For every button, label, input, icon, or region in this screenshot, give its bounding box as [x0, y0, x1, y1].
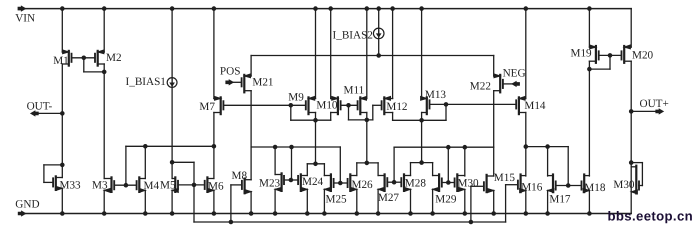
junction M25/M26 gate node: [339, 181, 343, 185]
junction I_BIAS2 on tail bus: [377, 54, 381, 58]
wire gate bus segment 2: [251, 146, 340, 148]
wire M26 source to GND: [356, 189, 358, 213]
transistor M21: [242, 74, 252, 92]
wire bias rail (lower bus): [194, 221, 506, 223]
junction OUT- node: [61, 112, 65, 116]
wire M19-M20 gate tie: [599, 54, 621, 56]
wire first gate bus drop to M3/M4 gates: [125, 146, 127, 185]
transistor M30 (output diode): [631, 166, 639, 194]
wire M15 gate down to bias rail: [470, 186, 472, 222]
wire M2 source to VIN rail: [103, 9, 105, 52]
wire I_BIAS1 node branch to M5/M6 gates: [172, 161, 194, 163]
wire M4 drain to first gate bus: [144, 146, 146, 178]
svg-text:M18: M18: [584, 182, 606, 194]
wire M22 drain to M15 drain: [493, 91, 495, 176]
wire M11 drain to M26/M27 drains: [366, 113, 368, 163]
svg-text:M4: M4: [144, 180, 160, 192]
transistor M6: [205, 177, 214, 192]
transistor M14: [516, 96, 526, 114]
port POS (arrow): [226, 80, 233, 85]
wire M17 source to GND: [547, 191, 549, 214]
junction M30 drain on bus: [463, 145, 467, 149]
wire M7 source to VIN rail: [213, 9, 215, 99]
junction M27/M28 gate node: [392, 180, 396, 184]
transistor M19: [589, 45, 598, 63]
svg-text:M27: M27: [378, 192, 400, 204]
wire M30 source to GND: [464, 191, 466, 214]
svg-text:M7: M7: [199, 101, 215, 113]
svg-text:M13: M13: [425, 89, 447, 101]
junction gate bus at M7 line: [212, 145, 216, 149]
wire M23 drain to gate bus: [274, 147, 276, 175]
svg-text:M10: M10: [316, 99, 338, 111]
wire M9 source to VIN rail: [315, 9, 317, 99]
wire M29 drain leg: [432, 163, 434, 176]
svg-text:M6: M6: [208, 181, 224, 193]
wire M10 source to VIN rail: [330, 9, 332, 99]
wire M19 source to VIN rail: [588, 9, 590, 48]
wire M1-M2 gate tie: [72, 57, 96, 59]
svg-text:M30: M30: [458, 177, 480, 189]
transistor M18: [582, 175, 590, 193]
wire M13 gate drop: [445, 104, 447, 120]
port NEG (arrow): [512, 82, 519, 87]
junction M10/M11 gate node: [347, 104, 351, 108]
svg-text:M15: M15: [494, 172, 516, 184]
wire M13-M14 gate tie: [430, 103, 517, 105]
wire M29-M30 gate tie: [442, 182, 455, 184]
wire M30 diode loop bottom: [639, 185, 643, 187]
wire M8 gate lead: [231, 184, 242, 186]
wire M16 gate down to bias rail: [505, 185, 507, 222]
junction M19 drain diode: [588, 67, 592, 71]
wire M23 source to GND: [274, 189, 276, 213]
transistor M26: [348, 174, 357, 191]
svg-text:M21: M21: [252, 77, 273, 89]
wire M9 gate to node: [290, 105, 292, 120]
wire M5 source to GND: [171, 190, 173, 213]
junction M3/M4 gate node: [124, 183, 128, 187]
junction M23/M24 gate node: [289, 178, 293, 182]
svg-text:M1: M1: [53, 55, 69, 67]
svg-text:M11: M11: [344, 85, 365, 97]
svg-text:bbs.eetop.cn: bbs.eetop.cn: [608, 209, 692, 224]
junction M23 drain on gate bus: [273, 145, 277, 149]
svg-text:M8: M8: [232, 170, 248, 182]
junction M7/M9 gate node: [289, 104, 293, 108]
svg-text:M22: M22: [470, 81, 491, 93]
svg-text:M14: M14: [524, 100, 546, 112]
transistor M3: [104, 177, 114, 192]
junction M11 drain node: [365, 118, 369, 122]
junction M8 gate on bias rail: [229, 220, 233, 224]
wire M26/M27 drain bridge: [357, 162, 378, 164]
wire VIN top rail: [25, 8, 631, 10]
wire M25-M26 gate tie: [334, 182, 348, 184]
transistor M23: [275, 173, 284, 191]
svg-text:M30: M30: [613, 179, 635, 191]
wire M2 drain to M3 drain: [103, 64, 105, 179]
wire gate bus drop to M29/M30 gates: [447, 147, 449, 182]
transistor M1: [62, 50, 71, 66]
junction M9/M10 drain node: [314, 118, 318, 122]
wire M5/M6 gate node down to bias rail: [193, 162, 195, 222]
wire M2 diode connection: [84, 71, 104, 73]
wire M30 drain to gate bus: [464, 147, 466, 176]
wire M19/M20 gate diode leg: [609, 55, 611, 69]
wire M1/M2 gate diode leg: [83, 58, 85, 72]
junction M1/M2 gates: [82, 56, 86, 60]
svg-text:M3: M3: [92, 179, 108, 191]
wire M3-M4 gate tie: [114, 184, 136, 186]
wire M8 source to GND: [250, 192, 252, 214]
wire M5-M6 gate tie: [178, 184, 205, 186]
wire gate bus segment 3: [394, 146, 494, 148]
svg-text:M12: M12: [386, 101, 407, 113]
svg-text:M28: M28: [405, 177, 427, 189]
wire M24 source to GND: [306, 189, 308, 213]
wire gate-bus drop to M23/M24 gates: [291, 147, 293, 180]
transistor M33: [53, 176, 62, 190]
svg-text:M2: M2: [106, 52, 122, 64]
svg-text:M9: M9: [288, 92, 304, 104]
wire first-stage gate bus segment 1: [126, 145, 214, 147]
junction M29/M30 gate drop on bus: [447, 145, 451, 149]
wire M28 drain leg: [410, 163, 412, 176]
wire M14 source to VIN rail: [525, 9, 527, 99]
transistor M8: [242, 179, 251, 194]
svg-text:M33: M33: [60, 180, 82, 192]
transistor M9: [306, 96, 316, 114]
junction M14 line on bus: [524, 145, 528, 149]
wire M7 drain to M6 drain: [213, 113, 215, 179]
wire M23-M24 gate tie: [284, 179, 298, 181]
junction dots on GND rail: [61, 212, 592, 216]
wire M13 drain to M28/M29 drains: [421, 113, 423, 163]
junction M12/M13 drain node: [420, 119, 424, 123]
wire I_BIAS2 from VIN rail to tail bus: [378, 9, 380, 56]
transistor M24: [298, 174, 307, 191]
wire M15 source to GND: [493, 191, 495, 214]
svg-text:M24: M24: [302, 176, 324, 188]
wire M4 source to GND: [144, 190, 146, 213]
wire M28 source to GND: [410, 189, 412, 213]
svg-text:I_BIAS1: I_BIAS1: [126, 76, 166, 88]
wire M21 drain to M8 drain: [250, 91, 252, 180]
junction M17 drain on bus: [546, 145, 550, 149]
wire M12 source to VIN rail: [392, 9, 394, 99]
transistor M28: [401, 174, 410, 191]
wire M1 source to VIN rail: [61, 9, 63, 52]
junction M24/M25 bridge feed: [314, 162, 318, 166]
wire M27-M28 gate tie: [387, 181, 401, 183]
wire M24/M25 drain bridge: [307, 163, 324, 165]
svg-text:M17: M17: [549, 194, 571, 206]
wire M18 source to GND: [588, 191, 590, 214]
wire POS to M21 gate: [233, 81, 241, 83]
port OUT+ (arrow): [656, 109, 663, 114]
wire M27 drain leg: [377, 163, 379, 176]
wire M33 diode loop: [44, 164, 62, 166]
junction M28/M29 bridge feed: [420, 161, 424, 165]
wire M19 drain to M18 drain: [588, 61, 590, 176]
junction M33 diode node: [61, 163, 65, 167]
svg-text:POS: POS: [220, 66, 241, 78]
wire M11 drain node: [349, 119, 373, 121]
wire gate bus segment 4: [526, 146, 568, 148]
svg-text:M19: M19: [571, 48, 593, 60]
wire M10/M11 gate drop: [348, 105, 350, 120]
transistor M22: [494, 74, 503, 92]
wire M6 source to GND: [213, 190, 215, 213]
transistor M12: [382, 96, 393, 114]
wire M26 drain leg: [356, 163, 358, 176]
port GND (arrow): [18, 211, 25, 216]
current source I_BIAS1: [167, 78, 177, 88]
transistor M7: [214, 96, 224, 114]
wire M19 diode connection: [589, 68, 610, 70]
transistor M16: [518, 175, 526, 193]
svg-text:M20: M20: [632, 50, 654, 62]
wire M30 diode loop top: [631, 162, 642, 164]
svg-text:M5: M5: [160, 180, 176, 192]
junction M13 gate node: [444, 103, 448, 107]
transistor M30: [455, 174, 465, 191]
wire M7-M9 gate tie: [223, 104, 305, 106]
wire M9 drain to M24/M25 drains: [315, 113, 317, 164]
current source I_BIAS2: [373, 28, 384, 39]
wire M17 drain to output gate bus: [547, 147, 549, 176]
junction M5/M6 gate node: [192, 183, 196, 187]
junction M23 gate drop on bus: [290, 145, 294, 149]
junction M29/M30 gate node: [447, 181, 451, 185]
junction M2 drain diode: [102, 70, 106, 74]
transistor M20: [622, 45, 632, 63]
junction M17/M18 gate node: [566, 184, 570, 188]
wire M12/M13 drain node: [393, 119, 446, 121]
junction M26/M27 bridge feed: [365, 161, 369, 165]
transistor M13: [421, 96, 430, 114]
svg-text:M16: M16: [521, 181, 543, 193]
junction M4 drain on gate bus: [144, 145, 148, 149]
junction M30 output diode node: [629, 161, 633, 165]
junction I_BIAS1 branch node: [170, 161, 174, 165]
wire M27 source to GND: [377, 189, 379, 213]
wire M11 source to VIN rail: [366, 9, 368, 99]
junction M15 gate on bias rail: [469, 220, 473, 224]
transistor M11: [358, 96, 367, 114]
wire M12 drain to node: [392, 113, 394, 121]
transistor M17: [548, 175, 556, 193]
wire M10 drain to node: [330, 113, 332, 121]
wire OUT+ from M20 drain: [631, 110, 656, 112]
wire M14 drain to M16 drain: [525, 113, 527, 177]
wire GND bottom rail: [26, 213, 632, 215]
wire M12 gate lead: [373, 104, 382, 106]
wire M16 gate lead: [506, 184, 518, 186]
transistor M5: [172, 177, 178, 192]
wire M12 gate drop: [372, 105, 374, 120]
junction M19/M20 gates: [608, 54, 612, 58]
transistor M10: [331, 96, 341, 114]
wire M15 gate lead: [471, 185, 484, 187]
wire M13 source to VIN rail: [421, 9, 423, 99]
wire M1 drain / OUT- / M33 drain: [61, 64, 63, 178]
wire NEG to M22 gate: [503, 83, 512, 85]
wire M17-M18 gate tie: [556, 185, 582, 187]
transistor M2: [95, 50, 104, 66]
wire M28/M29 drain bridge: [411, 162, 433, 164]
transistor M4: [137, 177, 146, 192]
wire M24 drain leg: [306, 164, 308, 176]
transistor M15: [484, 175, 494, 193]
wire M8 gate down to bias rail: [230, 185, 232, 222]
wire M29 source to GND: [432, 189, 434, 213]
svg-text:OUT+: OUT+: [640, 98, 669, 110]
svg-text:NEG: NEG: [503, 68, 526, 80]
junction dots on VIN rail: [61, 7, 592, 11]
wire VIN rail corner down to M20 source: [630, 9, 632, 48]
svg-text:M25: M25: [326, 194, 348, 206]
wire M33 source to GND: [61, 188, 63, 213]
transistor M27: [378, 174, 387, 191]
junction OUT+ node: [629, 110, 633, 114]
port VIN (input arrow): [18, 6, 25, 11]
wire gate bus drop to M25/M26 gates: [339, 147, 341, 183]
wire M25 drain leg: [323, 164, 325, 176]
wire M22 source to tail bus: [493, 56, 495, 77]
wire M10-M11 gate tie: [341, 104, 358, 106]
svg-text:OUT-: OUT-: [27, 100, 53, 112]
wire M21 source to tail bus: [250, 56, 252, 77]
wire M16 source to GND: [525, 191, 527, 214]
svg-text:GND: GND: [15, 199, 39, 211]
transistor M25: [324, 174, 333, 191]
svg-text:M26: M26: [352, 179, 374, 191]
wire M30 diode loop leg: [641, 163, 643, 186]
wire gate bus drop to M27/M28 gates: [393, 147, 395, 182]
svg-text:M29: M29: [435, 194, 457, 206]
wire OUT- to M1 drain: [38, 112, 62, 114]
wire M9/M10 drain node: [291, 119, 331, 121]
wire M25 source to GND: [323, 189, 325, 213]
svg-text:VIN: VIN: [15, 12, 35, 24]
wire M20 drain / OUT+ / M30 to GND corner: [630, 61, 632, 213]
port OUT- (arrow): [31, 111, 38, 116]
wire bus drop to M17/M18 gates: [567, 147, 569, 186]
wire I_BIAS1 branch VIN to M5 drain: [171, 9, 173, 179]
wire tail-current bus: [251, 55, 494, 57]
svg-text:M23: M23: [259, 178, 281, 190]
transistor M29: [433, 174, 442, 191]
wire M3 source to GND: [103, 190, 105, 213]
